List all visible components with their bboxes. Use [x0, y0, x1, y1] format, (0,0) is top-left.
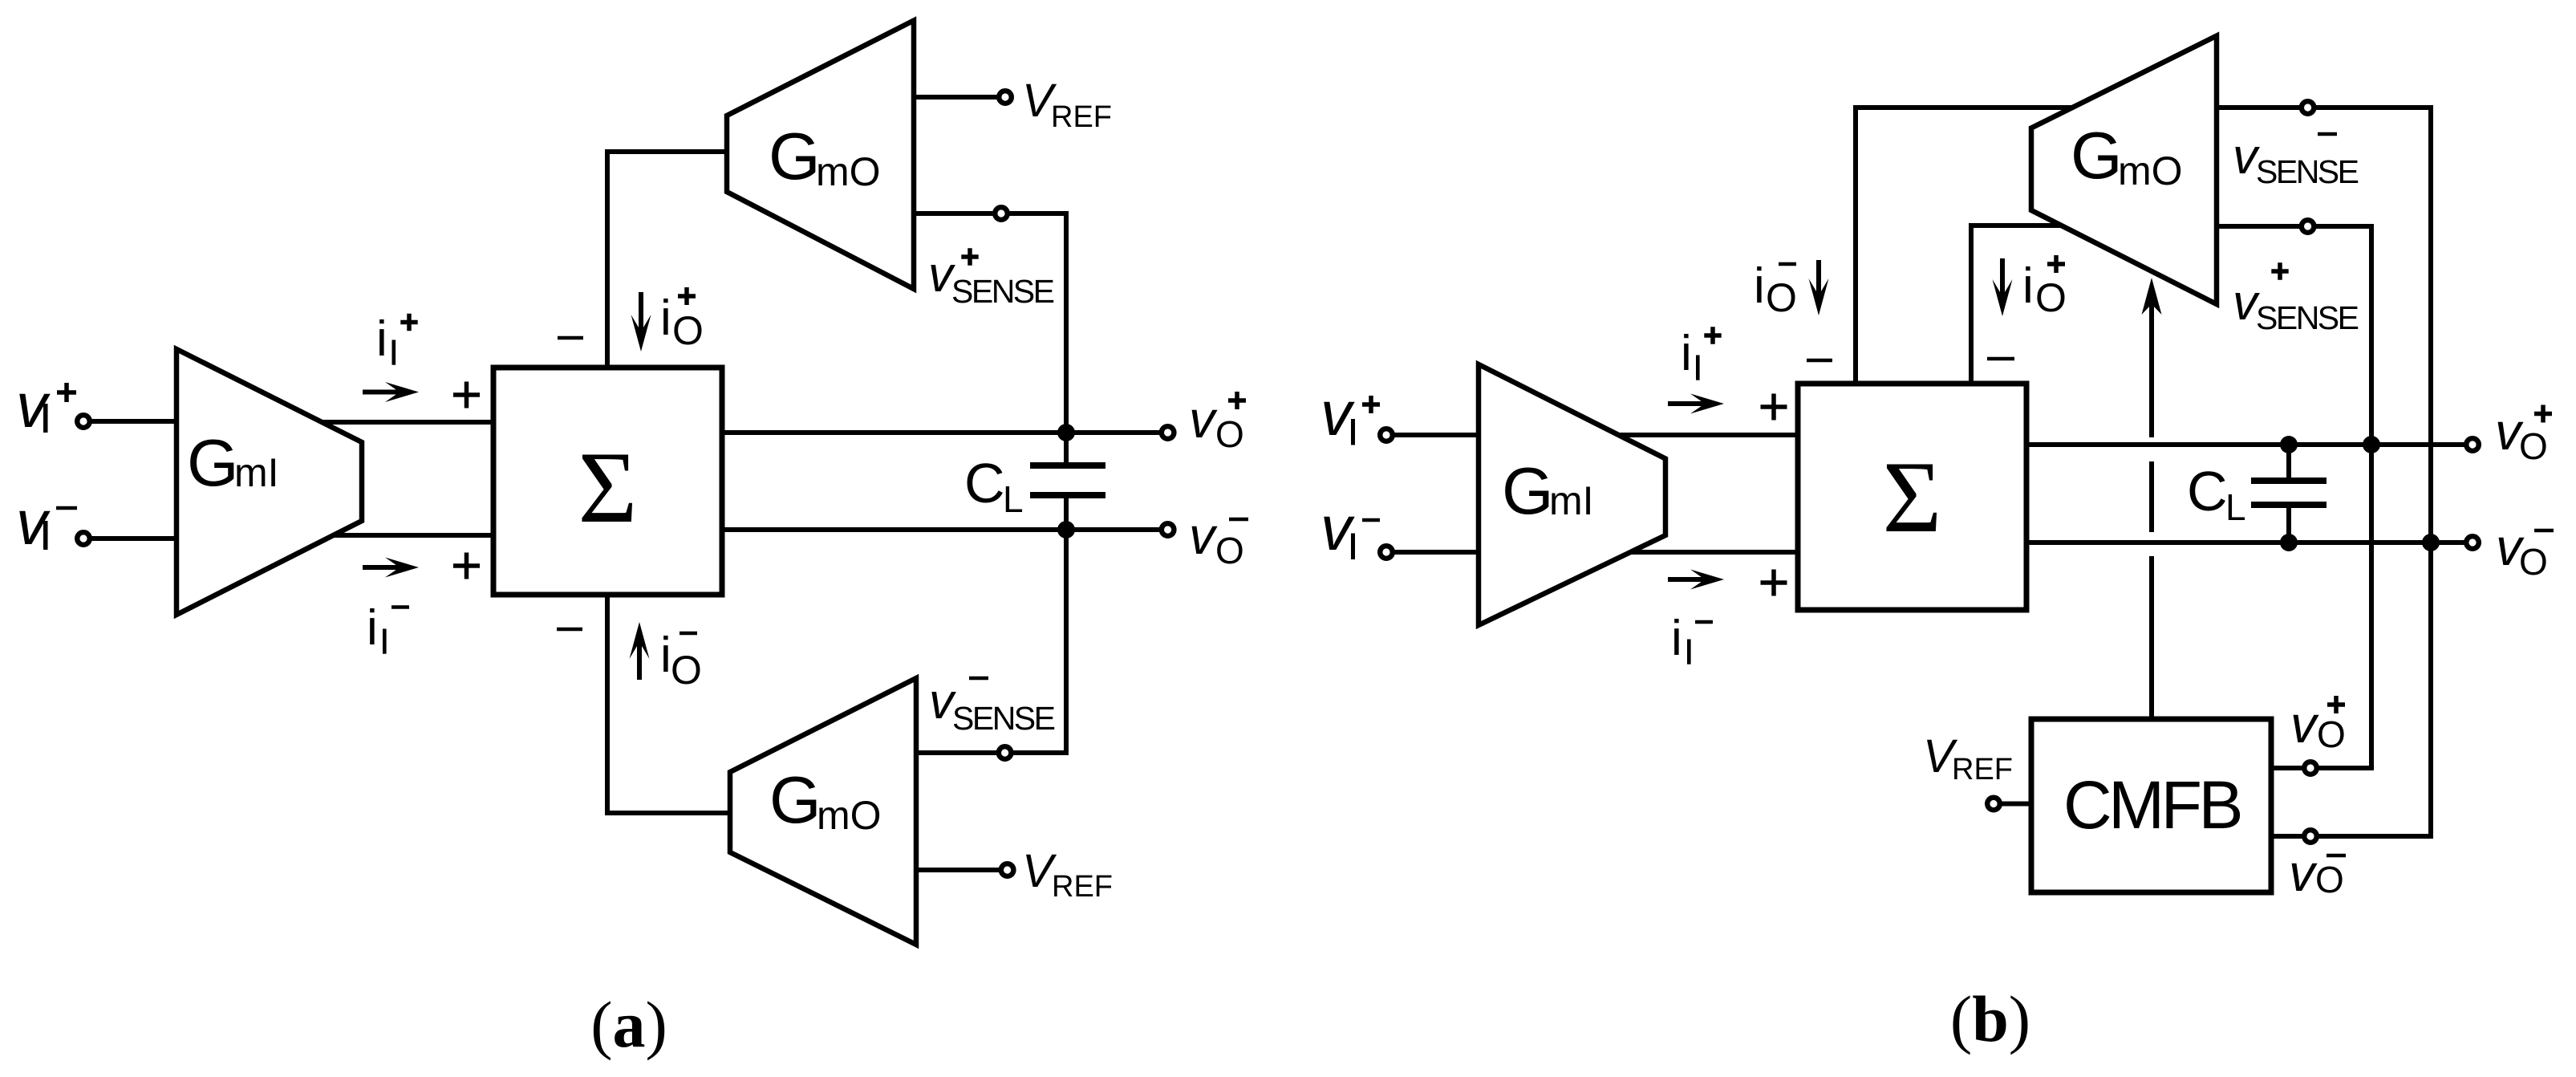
svg-text:REF: REF — [1952, 753, 2013, 786]
svg-text:G: G — [1502, 453, 1554, 528]
svg-text:G: G — [769, 119, 821, 193]
svg-text:O: O — [2035, 275, 2067, 320]
svg-text:SENSE: SENSE — [2256, 299, 2359, 336]
svg-text:v: v — [1320, 378, 1355, 449]
svg-text:SENSE: SENSE — [951, 273, 1054, 310]
svg-text:G: G — [187, 425, 239, 500]
svg-text:Σ: Σ — [1883, 441, 1942, 554]
svg-text:O: O — [2519, 541, 2548, 583]
svg-text:i: i — [367, 600, 378, 656]
svg-text:v: v — [1189, 506, 1218, 565]
svg-text:O: O — [2317, 713, 2346, 755]
svg-text:REF: REF — [1052, 870, 1113, 904]
svg-text:(a): (a) — [590, 988, 667, 1061]
svg-text:O: O — [1766, 275, 1797, 320]
svg-text:C: C — [2187, 460, 2228, 522]
svg-text:mO: mO — [817, 793, 882, 838]
svg-text:SENSE: SENSE — [952, 700, 1055, 737]
svg-text:i: i — [1754, 258, 1765, 314]
svg-text:i: i — [1681, 326, 1692, 381]
svg-text:mO: mO — [816, 149, 881, 194]
svg-text:v: v — [2289, 843, 2318, 902]
svg-text:CMFB: CMFB — [2063, 767, 2240, 843]
svg-text:Σ: Σ — [578, 432, 638, 544]
svg-text:(b): (b) — [1950, 982, 2030, 1055]
svg-text:L: L — [1003, 478, 1024, 520]
svg-text:v: v — [1189, 390, 1218, 449]
svg-text:O: O — [2315, 859, 2344, 900]
svg-text:mI: mI — [1549, 478, 1594, 523]
svg-text:v: v — [1320, 493, 1355, 563]
svg-text:G: G — [769, 762, 821, 837]
svg-text:O: O — [1215, 530, 1244, 571]
svg-text:i: i — [2022, 258, 2034, 314]
svg-text:SENSE: SENSE — [2256, 153, 2359, 190]
svg-text:G: G — [2071, 118, 2123, 193]
svg-text:L: L — [2225, 486, 2246, 528]
svg-text:O: O — [671, 648, 702, 693]
svg-text:mI: mI — [234, 450, 279, 495]
svg-text:i: i — [660, 628, 671, 683]
svg-text:v: v — [2290, 695, 2319, 754]
svg-text:i: i — [1671, 611, 1682, 666]
svg-text:C: C — [964, 452, 1005, 514]
svg-text:REF: REF — [1051, 100, 1112, 134]
svg-text:O: O — [2519, 425, 2548, 467]
svg-text:i: i — [660, 291, 671, 346]
svg-text:i: i — [376, 311, 387, 367]
svg-text:O: O — [672, 308, 704, 353]
svg-text:O: O — [1215, 413, 1244, 455]
svg-text:mO: mO — [2118, 148, 2183, 193]
